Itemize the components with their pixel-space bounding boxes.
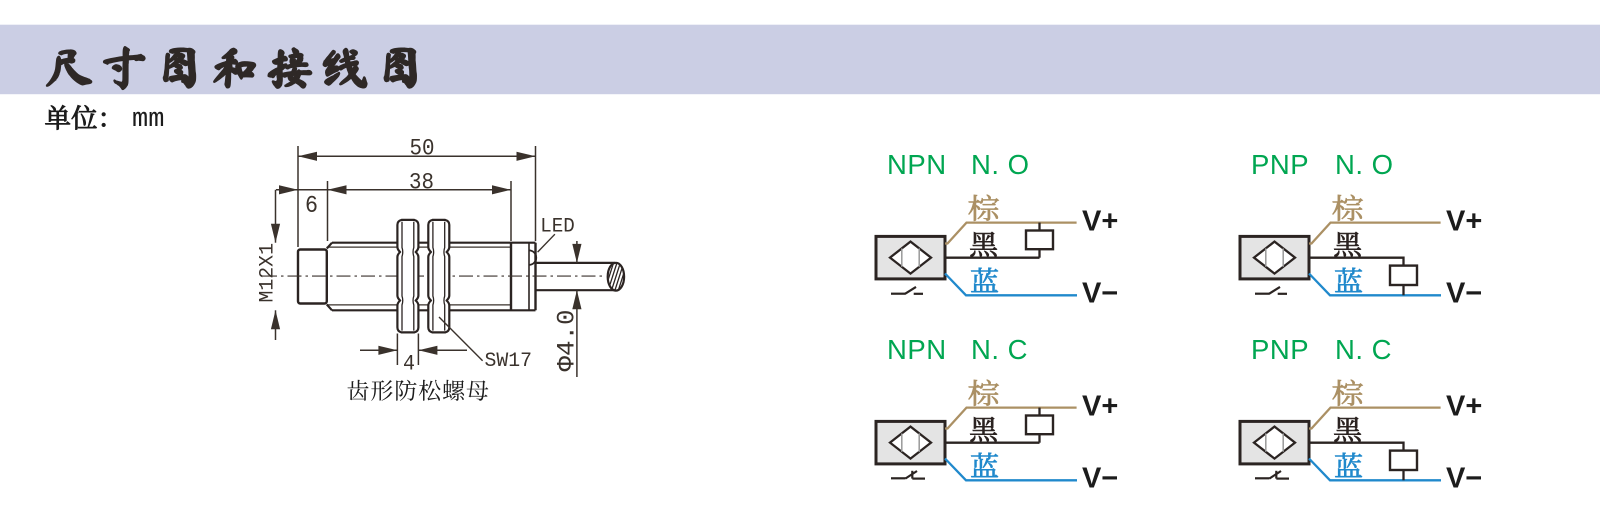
svg-text:N. O: N. O [1335, 149, 1394, 180]
svg-text:V−: V− [1446, 278, 1482, 310]
svg-text:PNP: PNP [1251, 334, 1309, 365]
svg-text:Φ4.0: Φ4.0 [553, 310, 582, 372]
svg-text:N. C: N. C [971, 334, 1028, 365]
svg-text:V−: V− [1446, 463, 1482, 495]
svg-text:N. C: N. C [1335, 334, 1392, 365]
svg-text:V−: V− [1082, 463, 1118, 495]
svg-text:V+: V+ [1446, 206, 1482, 238]
svg-text:4: 4 [403, 352, 415, 377]
svg-text:V−: V− [1082, 278, 1118, 310]
svg-text:V+: V+ [1082, 391, 1118, 423]
svg-text:50: 50 [410, 136, 435, 162]
svg-text:V+: V+ [1082, 206, 1118, 238]
svg-text:LED: LED [540, 216, 575, 239]
svg-text:38: 38 [409, 170, 434, 196]
svg-text:N. O: N. O [971, 149, 1030, 180]
svg-text:PNP: PNP [1251, 149, 1309, 180]
svg-text:6: 6 [305, 193, 318, 220]
svg-text:M12X1: M12X1 [256, 243, 279, 303]
svg-text:NPN: NPN [887, 334, 947, 365]
svg-text:SW17: SW17 [485, 350, 533, 373]
svg-text:NPN: NPN [887, 149, 947, 180]
svg-text:mm: mm [132, 105, 164, 135]
svg-text:V+: V+ [1446, 391, 1482, 423]
